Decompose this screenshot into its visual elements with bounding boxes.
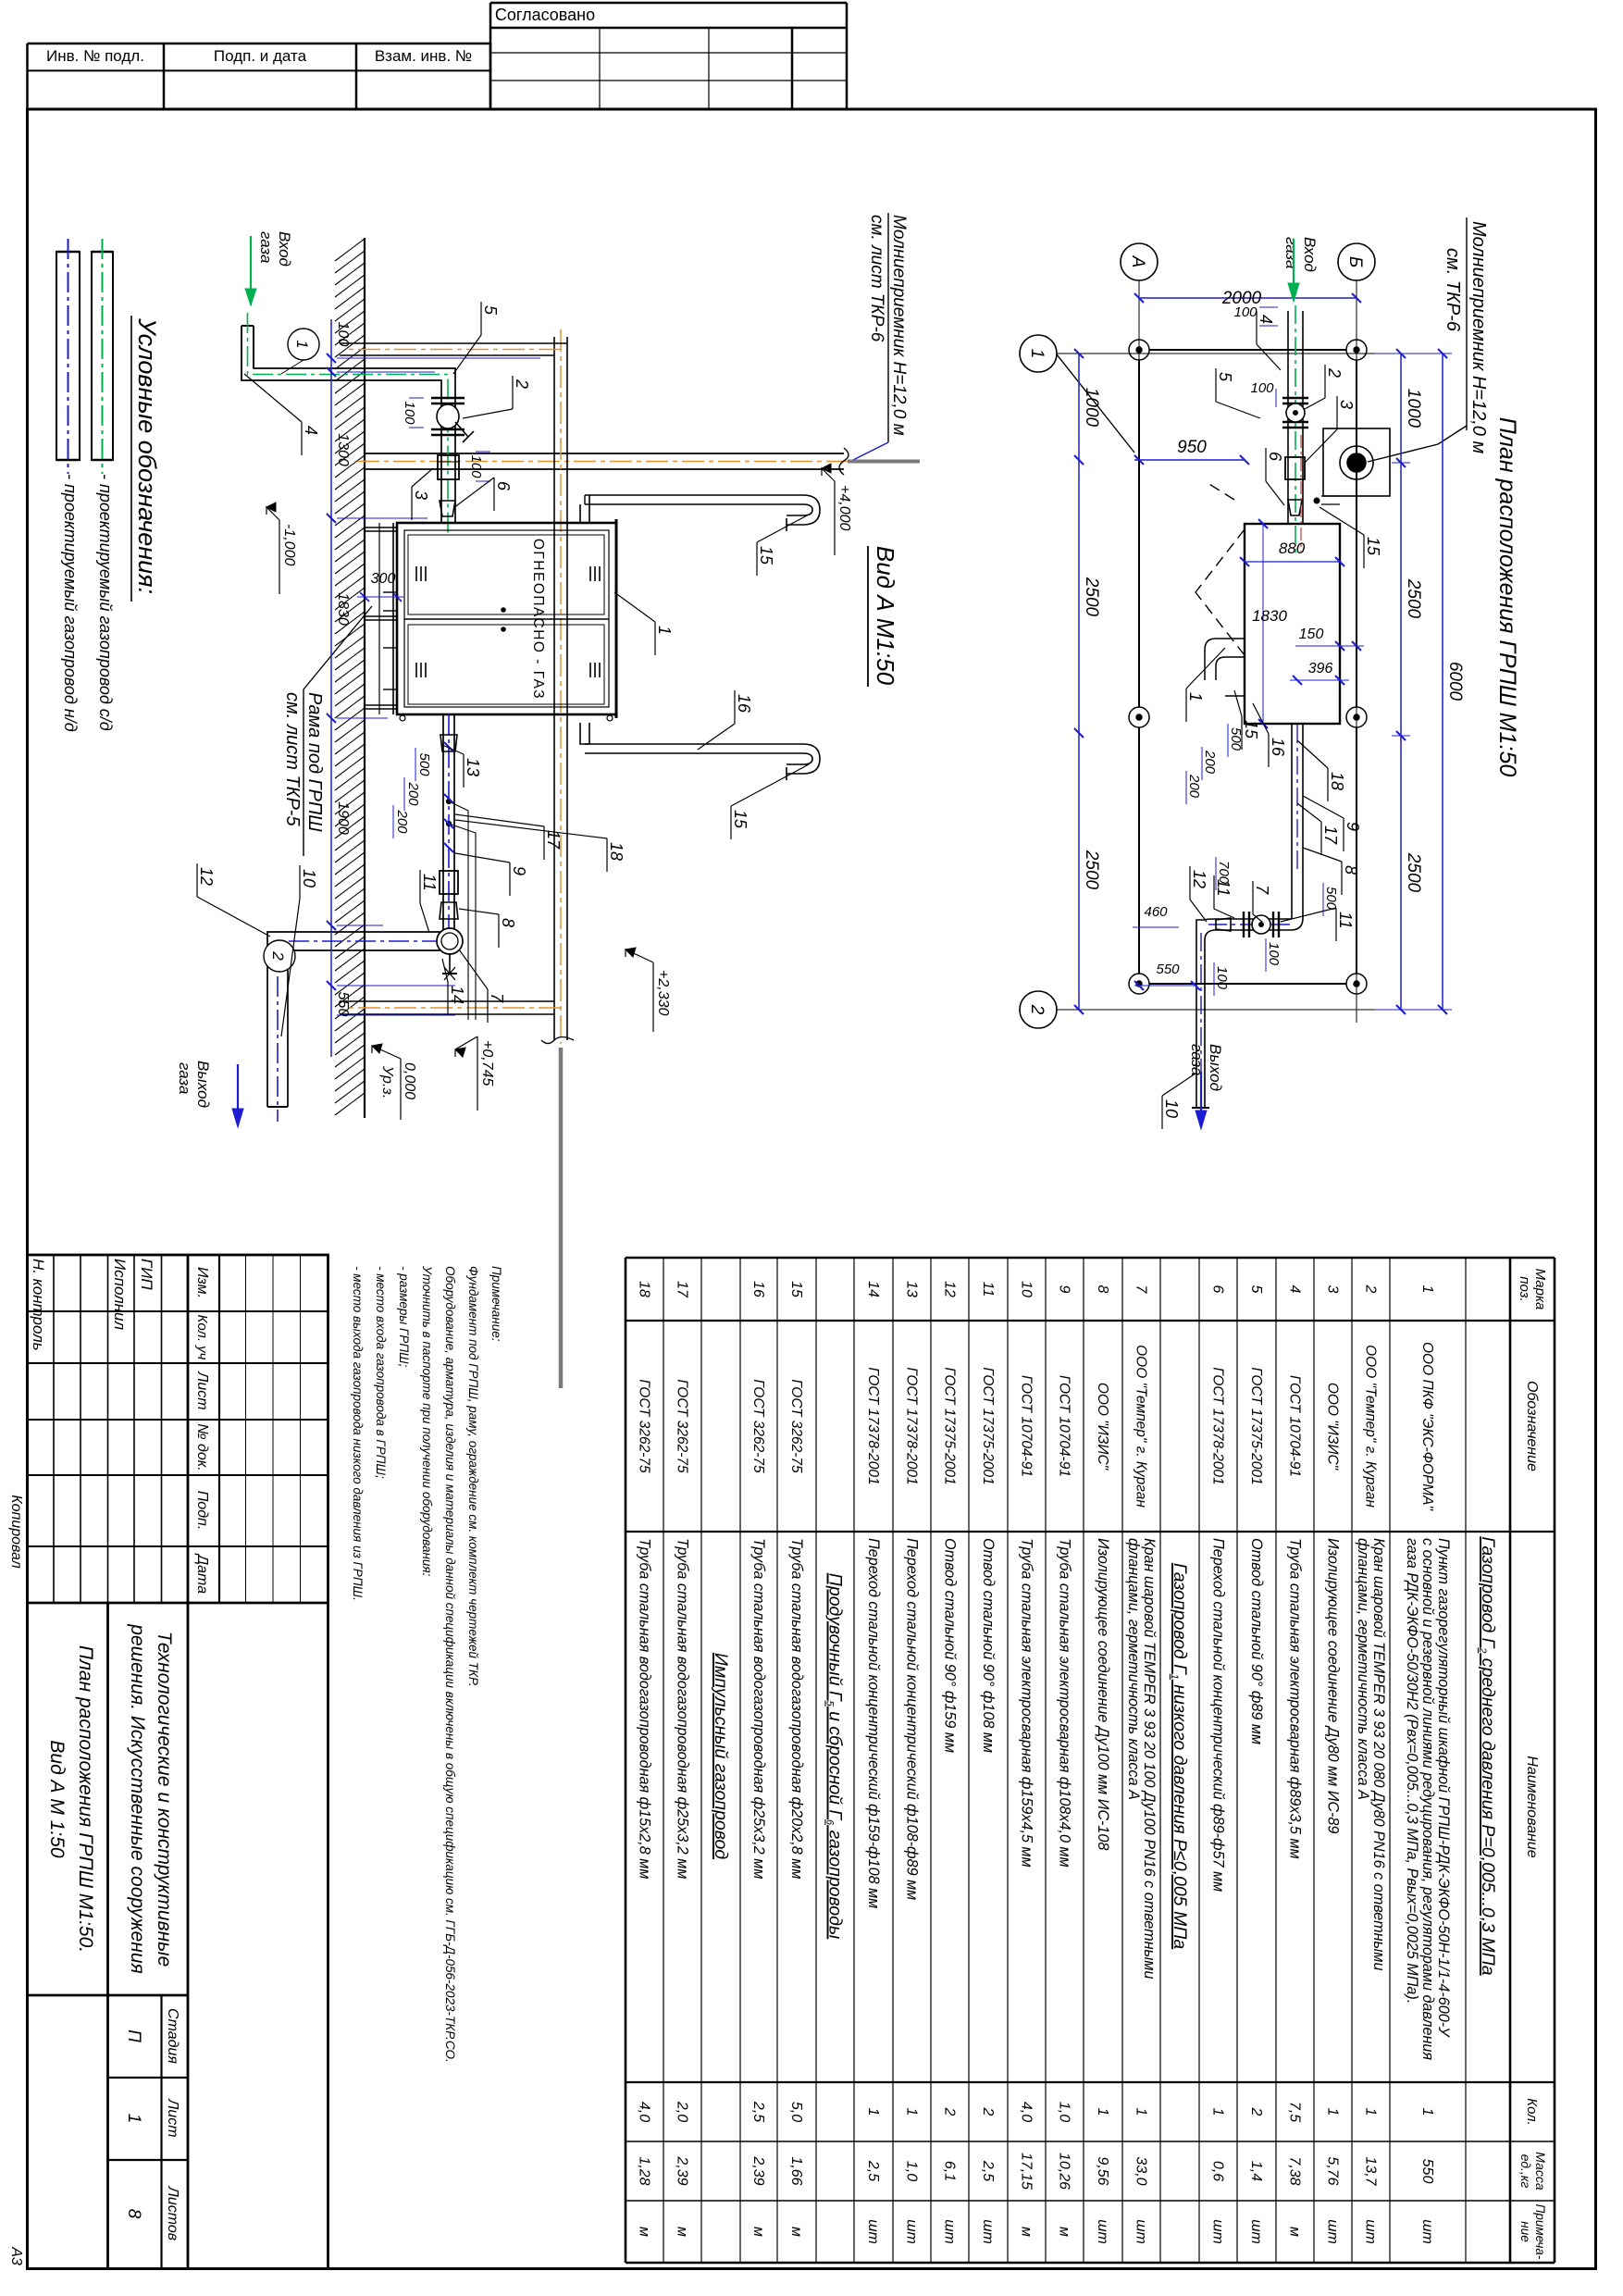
svg-text:7: 7: [1253, 885, 1271, 895]
GRPSh cabinet plan: [1245, 524, 1340, 724]
title block main stamp: [28, 1255, 328, 2269]
front item leaders: [480, 302, 482, 335]
svg-text:18: 18: [607, 842, 626, 861]
svg-text:8: 8: [1342, 865, 1360, 875]
svg-text:ГОСТ 17378-2001: ГОСТ 17378-2001: [1210, 1367, 1226, 1484]
node circle 2 front: [264, 940, 295, 972]
svg-text:5,76: 5,76: [1325, 2156, 1341, 2185]
svg-text:6: 6: [1266, 452, 1284, 462]
svg-text:ГОСТ 3262-75: ГОСТ 3262-75: [675, 1379, 690, 1473]
svg-text:Продувочный Г5 и сбросной Г6 г: Продувочный Г5 и сбросной Г6 газопроводы: [824, 1573, 846, 1940]
svg-text:300: 300: [371, 571, 396, 587]
outlet reducer pos8 plan: [1216, 918, 1231, 931]
soglasovano strip: [846, 3, 849, 109]
svg-text:15: 15: [757, 546, 775, 565]
plan left dimension 2000: [1139, 297, 1357, 299]
svg-text:План расположения ГРПШ М1:50: План расположения ГРПШ М1:50: [1494, 417, 1520, 777]
svg-text:2500: 2500: [1404, 578, 1423, 619]
svg-text:6000: 6000: [1445, 662, 1465, 701]
svg-text:м: м: [1287, 2227, 1303, 2237]
svg-text:ООО "Темпер" г. Курган: ООО "Темпер" г. Курган: [1134, 1345, 1149, 1508]
vent pipe pos15 left with hook: [585, 495, 820, 525]
svg-text:8: 8: [499, 918, 517, 927]
svg-text:Оборудование, арматура, издели: Оборудование, арматура, изделия и матери…: [443, 1266, 457, 2063]
svg-text:3: 3: [1325, 1285, 1341, 1294]
svg-text:см. лист ТКР-5: см. лист ТКР-5: [282, 692, 303, 826]
svg-text:8: 8: [124, 2209, 143, 2219]
svg-text:ние: ние: [1518, 2221, 1532, 2241]
svg-text:1: 1: [293, 340, 311, 348]
axis circle 1: [1020, 335, 1057, 372]
svg-text:2,5: 2,5: [865, 2160, 881, 2181]
svg-text:Обозначение: Обозначение: [1524, 1381, 1540, 1471]
svg-text:Технологические и конструктивн: Технологические и конструктивные: [154, 1632, 175, 1967]
svg-text:13: 13: [904, 1281, 920, 1297]
svg-text:Примеча-: Примеча-: [1533, 2204, 1547, 2260]
svg-text:Молниеприемник Н=12,0 м: Молниеприемник Н=12,0 м: [889, 215, 909, 436]
svg-text:2,0: 2,0: [675, 2101, 690, 2122]
svg-text:Труба стальная водогазопроводн: Труба стальная водогазопроводная ф20х2,8…: [788, 1538, 805, 1879]
existing riser left front: [340, 342, 567, 344]
svg-text:200: 200: [1186, 774, 1202, 799]
svg-text:Дата: Дата: [194, 1553, 210, 1594]
svg-text:100: 100: [335, 322, 351, 347]
legend pipe symbol nizkogo davleniya: [56, 252, 80, 460]
svg-text:газа: газа: [176, 1062, 193, 1094]
svg-text:1,28: 1,28: [637, 2156, 652, 2185]
svg-text:Выход: Выход: [1207, 1044, 1224, 1091]
svg-text:ГОСТ 17375-2001: ГОСТ 17375-2001: [980, 1367, 996, 1484]
plan top dimension chain 1000 2500 2500 6000: [1400, 354, 1402, 1010]
svg-text:- размеры ГРПШ;: - размеры ГРПШ;: [397, 1266, 411, 1368]
svg-text:6: 6: [494, 481, 513, 491]
svg-text:1000: 1000: [1404, 389, 1423, 428]
svg-text:Отвод стальной 90° ф89 мм: Отвод стальной 90° ф89 мм: [1248, 1538, 1265, 1744]
svg-text:500: 500: [1323, 887, 1339, 911]
svg-text:9: 9: [1344, 822, 1362, 831]
svg-text:1: 1: [1419, 1285, 1435, 1294]
svg-text:7,38: 7,38: [1287, 2156, 1303, 2185]
svg-text:Труба стальная водогазопроводн: Труба стальная водогазопроводная ф25х3,2…: [750, 1538, 767, 1879]
svg-text:8: 8: [1095, 1285, 1110, 1294]
svg-text:950: 950: [1177, 438, 1207, 457]
svg-text:ОГНЕОПАСНО - ГАЗ: ОГНЕОПАСНО - ГАЗ: [530, 539, 546, 700]
svg-text:2: 2: [269, 950, 287, 961]
svg-text:ГОСТ 17378-2001: ГОСТ 17378-2001: [865, 1367, 881, 1484]
svg-text:Выход: Выход: [194, 1061, 212, 1108]
under cabinet dims 500 200 200 on outlet pipe: [444, 742, 453, 751]
svg-text:газа: газа: [1282, 237, 1300, 268]
cabinet dims 880 1830 150 396: [1245, 561, 1340, 563]
svg-text:1: 1: [1095, 2108, 1110, 2116]
lightning mast front: [365, 453, 844, 454]
svg-text:ед.,кг: ед.,кг: [1518, 2154, 1533, 2189]
svg-text:шт: шт: [942, 2219, 958, 2244]
svg-text:П: П: [124, 2029, 143, 2042]
svg-text:1: 1: [865, 2108, 881, 2116]
impulse pipes pos17 pos18 front: [446, 799, 451, 803]
outlet reducer pos13 front: [440, 735, 457, 751]
outlet joint pos8 front: [440, 871, 458, 894]
axis lines plan: [1356, 280, 1357, 1023]
svg-text:2: 2: [1027, 1004, 1047, 1015]
svg-text:- проектируемый газопровод с/: - проектируемый газопровод с/д: [96, 474, 115, 731]
svg-text:Изолирующее соединение Ду100 м: Изолирующее соединение Ду100 мм ИС-108: [1095, 1538, 1111, 1850]
svg-text:0,000: 0,000: [402, 1062, 417, 1099]
svg-text:газа: газа: [1188, 1044, 1206, 1075]
svg-text:шт: шт: [1248, 2219, 1264, 2244]
svg-text:Пункт газорегуляторный шкафной: Пункт газорегуляторный шкафной ГРПШ-РДК-…: [1435, 1538, 1452, 2038]
svg-text:Вход: Вход: [1301, 237, 1319, 272]
svg-text:2: 2: [980, 2107, 996, 2116]
svg-text:ГОСТ 17375-2001: ГОСТ 17375-2001: [942, 1367, 958, 1484]
svg-text:1: 1: [1210, 2108, 1226, 2116]
svg-text:Лист: Лист: [194, 1371, 210, 1409]
svg-text:шт: шт: [1095, 2219, 1110, 2244]
svg-text:Масса: Масса: [1533, 2152, 1548, 2191]
svg-text:Инв. № подл.: Инв. № подл.: [46, 47, 144, 65]
svg-text:550: 550: [335, 992, 351, 1017]
axis circle B: [1338, 243, 1375, 280]
svg-text:2: 2: [942, 2107, 958, 2116]
svg-text:550: 550: [1419, 2159, 1435, 2184]
svg-text:17,15: 17,15: [1019, 2153, 1035, 2190]
svg-text:1: 1: [1363, 2108, 1379, 2116]
svg-text:м: м: [788, 2227, 804, 2237]
svg-text:ООО ПКФ "ЭКС-ФОРМА": ООО ПКФ "ЭКС-ФОРМА": [1419, 1342, 1435, 1511]
svg-text:2: 2: [1325, 367, 1344, 378]
outlet valve pos7 plan: [1278, 912, 1280, 937]
support frame under cabinet: [365, 527, 397, 528]
svg-text:10: 10: [1162, 1099, 1181, 1118]
svg-text:18: 18: [637, 1281, 652, 1297]
svg-text:Молниеприемник Н=12,0 м: Молниеприемник Н=12,0 м: [1468, 221, 1489, 453]
svg-text:1: 1: [1325, 2108, 1341, 2116]
svg-text:5: 5: [481, 305, 500, 316]
svg-text:16: 16: [735, 694, 753, 714]
svg-text:м: м: [1057, 2227, 1072, 2237]
svg-text:Листов: Листов: [165, 2186, 180, 2240]
svg-text:газа: газа: [257, 231, 275, 263]
svg-text:11: 11: [1336, 912, 1355, 929]
front dim chain bottom: [330, 319, 332, 1057]
svg-text:13,7: 13,7: [1363, 2156, 1379, 2186]
svg-text:Газопровод Г1 низкого давления: Газопровод Г1 низкого давления Р≤0,005 М…: [1169, 1563, 1190, 1949]
svg-text:15: 15: [788, 1281, 804, 1297]
svg-text:200: 200: [394, 809, 410, 834]
svg-text:шт: шт: [1210, 2219, 1226, 2244]
axis circle A: [1121, 243, 1158, 280]
svg-text:- проектируемый газопровод н/: - проектируемый газопровод н/д: [61, 474, 80, 732]
svg-text:1,0: 1,0: [904, 2161, 920, 2181]
legend pipe symbol srednego davleniya: [92, 252, 113, 460]
svg-text:9: 9: [510, 866, 528, 875]
inlet green centerline: [248, 313, 449, 537]
svg-text:Ур.з.: Ур.з.: [379, 1065, 395, 1098]
valve pos2 plan: [1282, 397, 1308, 399]
svg-text:ГОСТ 3262-75: ГОСТ 3262-75: [788, 1379, 804, 1473]
svg-text:396: 396: [1308, 661, 1333, 676]
svg-text:Труба стальная электросварная: Труба стальная электросварная ф108х4,0 м…: [1057, 1538, 1073, 1868]
svg-text:1,4: 1,4: [1248, 2161, 1264, 2181]
svg-text:500: 500: [416, 752, 432, 776]
svg-text:ООО "Темпер" г. Курган: ООО "Темпер" г. Курган: [1363, 1345, 1379, 1508]
svg-text:10: 10: [300, 869, 318, 887]
svg-text:см. ТКР-6: см. ТКР-6: [1443, 248, 1463, 332]
svg-text:1830: 1830: [1252, 607, 1287, 625]
svg-text:Рама под ГРПШ: Рама под ГРПШ: [304, 692, 325, 832]
svg-text:1900: 1900: [335, 801, 351, 835]
svg-text:550: 550: [1156, 962, 1180, 977]
svg-text:А: А: [1128, 255, 1147, 268]
existing overhead pipeline front: [566, 337, 568, 1040]
svg-text:200: 200: [405, 781, 421, 806]
node circle 1 front: [288, 329, 319, 360]
svg-text:17: 17: [675, 1281, 690, 1298]
svg-text:5,0: 5,0: [788, 2102, 804, 2122]
svg-text:ГОСТ 17375-2001: ГОСТ 17375-2001: [1248, 1367, 1264, 1484]
svg-text:- место выхода газопровода ни: - место выхода газопровода низкого давле…: [351, 1266, 365, 1601]
svg-text:2,5: 2,5: [750, 2101, 766, 2122]
svg-text:4,0: 4,0: [637, 2102, 652, 2122]
svg-text:шт: шт: [1419, 2219, 1435, 2244]
svg-text:11: 11: [980, 1282, 996, 1297]
svg-text:Отвод стальной 90° ф159 мм: Отвод стальной 90° ф159 мм: [942, 1538, 959, 1753]
svg-text:шт: шт: [1134, 2219, 1149, 2244]
svg-text:5: 5: [1248, 1285, 1264, 1294]
svg-text:Наименование: Наименование: [1524, 1756, 1540, 1858]
svg-text:2,39: 2,39: [750, 2155, 766, 2185]
inlet underground pipe front: [253, 326, 254, 368]
svg-text:4: 4: [1287, 1285, 1303, 1294]
svg-text:ГОСТ 3262-75: ГОСТ 3262-75: [750, 1379, 766, 1473]
svg-text:Труба стальная водогазопроводн: Труба стальная водогазопроводная ф15х2,8…: [637, 1538, 653, 1879]
svg-text:Кран шаровой TEMPER 3 93 20 10: Кран шаровой TEMPER 3 93 20 100 Ду100 PN…: [1141, 1538, 1158, 1980]
svg-text:100: 100: [402, 401, 417, 425]
svg-text:- место входа газопровода в Г: - место входа газопровода в ГРПШ;: [374, 1266, 388, 1479]
door grilles: [599, 566, 601, 581]
svg-text:13: 13: [464, 758, 482, 776]
svg-text:Примечание:: Примечание:: [489, 1266, 503, 1342]
svg-text:ГОСТ 3262-75: ГОСТ 3262-75: [637, 1379, 652, 1473]
svg-text:План расположения ГРПШ М1:50.: План расположения ГРПШ М1:50.: [75, 1645, 96, 1953]
svg-text:3: 3: [1337, 400, 1356, 409]
svg-text:12: 12: [1190, 870, 1208, 888]
svg-text:Подп. и дата: Подп. и дата: [214, 47, 307, 65]
svg-text:Кол.: Кол.: [1524, 2098, 1540, 2125]
door handles: [502, 608, 505, 612]
svg-text:6,1: 6,1: [942, 2161, 958, 2181]
reducer pos6 front: [440, 501, 455, 516]
fence posts plan: [1346, 340, 1367, 360]
axis circle 2: [1020, 991, 1057, 1028]
svg-text:100: 100: [1214, 966, 1230, 990]
svg-text:1: 1: [1186, 692, 1205, 701]
svg-text:5: 5: [1216, 372, 1234, 382]
svg-text:шт: шт: [980, 2219, 996, 2244]
svg-text:1: 1: [124, 2114, 143, 2124]
svg-text:ГИП: ГИП: [138, 1259, 155, 1290]
svg-text:1300: 1300: [335, 433, 351, 466]
svg-text:460: 460: [1144, 904, 1168, 920]
svg-text:Фундамент под ГРПШ, раму, огра: Фундамент под ГРПШ, раму, ограждение см.…: [466, 1266, 480, 1687]
svg-text:ООО "ИЗИС": ООО "ИЗИС": [1325, 1383, 1341, 1471]
svg-text:1,66: 1,66: [788, 2156, 804, 2185]
svg-text:12: 12: [942, 1281, 958, 1297]
valve pos2 front: [431, 397, 465, 399]
svg-text:7,5: 7,5: [1287, 2102, 1303, 2122]
svg-text:Изолирующее соединение Ду80 мм: Изолирующее соединение Ду80 мм ИС-89: [1325, 1538, 1342, 1833]
svg-text:Вид А М1:50: Вид А М1:50: [872, 546, 899, 686]
svg-text:700: 700: [1216, 861, 1232, 885]
plan bottom dimension chain 1000 2500 2500: [1078, 354, 1080, 1010]
svg-text:10,26: 10,26: [1057, 2153, 1072, 2190]
outlet pipe front: [288, 714, 454, 1107]
svg-text:1000: 1000: [1082, 388, 1101, 428]
svg-text:7: 7: [488, 993, 506, 1003]
svg-text:Изм.: Изм.: [194, 1267, 210, 1298]
svg-text:Импульсный газопровод: Импульсный газопровод: [711, 1653, 731, 1859]
svg-text:Копировал: Копировал: [8, 1495, 24, 1569]
svg-text:14: 14: [865, 1281, 881, 1297]
svg-text:Согласовано: Согласовано: [495, 6, 595, 24]
insulating joint pos3 plan: [1285, 457, 1305, 479]
svg-text:2,5: 2,5: [980, 2160, 996, 2181]
svg-text:0,6: 0,6: [1210, 2161, 1226, 2181]
svg-text:Исполнил: Исполнил: [111, 1259, 129, 1330]
svg-text:200: 200: [1202, 750, 1218, 775]
svg-text:Труба стальная водогазопроводн: Труба стальная водогазопроводная ф25х3,2…: [675, 1538, 691, 1879]
svg-text:4,0: 4,0: [1019, 2102, 1035, 2122]
svg-text:Уточнить в паспорте при получе: Уточнить в паспорте при получении оборуд…: [420, 1265, 434, 1577]
plan dimension 950: [1134, 459, 1245, 461]
svg-text:150: 150: [1299, 627, 1324, 642]
impulse red line plan: [1300, 435, 1302, 553]
svg-text:16: 16: [750, 1281, 766, 1297]
svg-text:Переход стальной концентрическ: Переход стальной концентрический ф89-ф57…: [1210, 1538, 1227, 1892]
svg-text:Переход стальной концентрическ: Переход стальной концентрический ф108-ф8…: [904, 1538, 921, 1900]
svg-text:6: 6: [1210, 1285, 1226, 1294]
svg-text:11: 11: [420, 874, 439, 891]
svg-text:Вход: Вход: [276, 231, 293, 267]
svg-text:+4,000: +4,000: [836, 485, 852, 530]
svg-text:Труба стальная электросварная: Труба стальная электросварная ф159х4,5 м…: [1019, 1538, 1035, 1868]
svg-text:880: 880: [1279, 540, 1306, 557]
svg-text:см. лист ТКР-6: см. лист ТКР-6: [867, 215, 886, 342]
svg-text:7: 7: [1134, 1285, 1149, 1295]
svg-text:3: 3: [412, 490, 430, 500]
svg-text:4: 4: [302, 426, 320, 435]
svg-text:1: 1: [1027, 349, 1047, 359]
svg-text:№ док.: № док.: [194, 1423, 210, 1471]
svg-text:Марка: Марка: [1532, 1269, 1548, 1310]
svg-text:15: 15: [731, 810, 750, 829]
svg-text:+0,745: +0,745: [479, 1040, 495, 1086]
svg-text:+2,330: +2,330: [655, 970, 671, 1015]
plan vent candle pipes: [1205, 639, 1245, 680]
outlet gas pipe plan: [1302, 725, 1304, 918]
svg-text:2500: 2500: [1082, 850, 1101, 890]
svg-text:Б: Б: [1345, 256, 1365, 267]
svg-text:10: 10: [1019, 1281, 1035, 1297]
svg-text:1: 1: [1419, 2108, 1435, 2116]
svg-text:с основной и резервной линиями: с основной и резервной линиями редуциров…: [1419, 1538, 1436, 2060]
svg-text:ГОСТ 10704-91: ГОСТ 10704-91: [1057, 1375, 1072, 1477]
svg-text:100: 100: [468, 454, 484, 478]
vent pipe pos15 right with hook: [585, 744, 820, 774]
svg-text:Подп.: Подп.: [194, 1491, 210, 1531]
insulating joint pos3 front: [438, 455, 459, 479]
svg-text:1,0: 1,0: [1057, 2102, 1072, 2122]
svg-text:2500: 2500: [1082, 577, 1101, 617]
svg-text:Стадия: Стадия: [165, 2008, 180, 2064]
svg-text:А3: А3: [8, 2246, 24, 2265]
existing riser right front: [340, 1000, 554, 1002]
svg-text:2: 2: [1363, 1285, 1379, 1294]
svg-text:Лист: Лист: [165, 2098, 180, 2137]
inlet riser pipe front: [254, 326, 455, 524]
svg-text:м: м: [1019, 2227, 1035, 2237]
outlet corner valve pos7 front: [437, 928, 463, 954]
outlet cap and arrow plan: [1192, 1107, 1209, 1109]
svg-text:1: 1: [904, 2108, 920, 2116]
svg-text:ООО "ИЗИС": ООО "ИЗИС": [1095, 1383, 1110, 1471]
svg-text:100: 100: [1266, 942, 1282, 966]
svg-text:газа РДК-ЭКФО-50/30Н2 (Рвх=0,0: газа РДК-ЭКФО-50/30Н2 (Рвх=0,005...0,3 М…: [1404, 1538, 1420, 2004]
svg-text:500: 500: [1228, 727, 1244, 751]
svg-text:Кол. уч: Кол. уч: [194, 1315, 210, 1360]
svg-text:18: 18: [1328, 772, 1346, 790]
svg-text:14: 14: [448, 986, 466, 1004]
left margin boxes: Vzam/Podp/Inv: [28, 43, 491, 45]
svg-text:1830: 1830: [335, 592, 351, 626]
svg-text:шт: шт: [1325, 2219, 1341, 2244]
svg-text:9: 9: [1057, 1285, 1072, 1294]
svg-text:ГОСТ 10704-91: ГОСТ 10704-91: [1019, 1375, 1035, 1477]
svg-text:4: 4: [1257, 315, 1275, 324]
svg-text:шт: шт: [1363, 2219, 1379, 2244]
reducer pos6 plan: [1288, 500, 1302, 515]
svg-text:2,39: 2,39: [675, 2155, 690, 2185]
outlet reducer pos14 front: [440, 902, 458, 919]
svg-text:шт: шт: [865, 2219, 881, 2244]
svg-text:шт: шт: [904, 2219, 920, 2244]
existing pipeline break continuation gray: [559, 1048, 564, 1388]
svg-text:2: 2: [513, 379, 531, 389]
svg-text:Переход стальной концентрическ: Переход стальной концентрический ф159-ф1…: [865, 1538, 882, 1908]
svg-text:Взам. инв. №: Взам. инв. №: [375, 47, 472, 65]
cabinet bottom stubs: [383, 591, 397, 593]
svg-text:Условные обозначения:: Условные обозначения:: [133, 317, 161, 594]
svg-text:1: 1: [655, 626, 674, 635]
svg-text:-1,000: -1,000: [281, 524, 297, 565]
svg-text:Газопровод Г2 среднего давлени: Газопровод Г2 среднего давления Р=0,005.…: [1477, 1536, 1498, 1975]
svg-text:Н. контроль: Н. контроль: [30, 1259, 47, 1351]
svg-text:15: 15: [1364, 537, 1382, 556]
svg-text:12: 12: [197, 867, 216, 886]
svg-text:1: 1: [1134, 2108, 1149, 2116]
svg-text:33,0: 33,0: [1134, 2156, 1149, 2185]
svg-text:м: м: [750, 2227, 766, 2237]
ground line with hatching: [364, 238, 365, 1118]
lightning rod pad plan: [1323, 428, 1390, 496]
plan inlet small dims 100 100: [1259, 306, 1278, 308]
svg-text:поз.: поз.: [1517, 1276, 1532, 1302]
svg-text:16: 16: [1269, 738, 1287, 757]
svg-text:ГОСТ 17378-2001: ГОСТ 17378-2001: [904, 1367, 920, 1484]
svg-text:2500: 2500: [1404, 852, 1423, 893]
svg-text:м: м: [675, 2227, 690, 2237]
